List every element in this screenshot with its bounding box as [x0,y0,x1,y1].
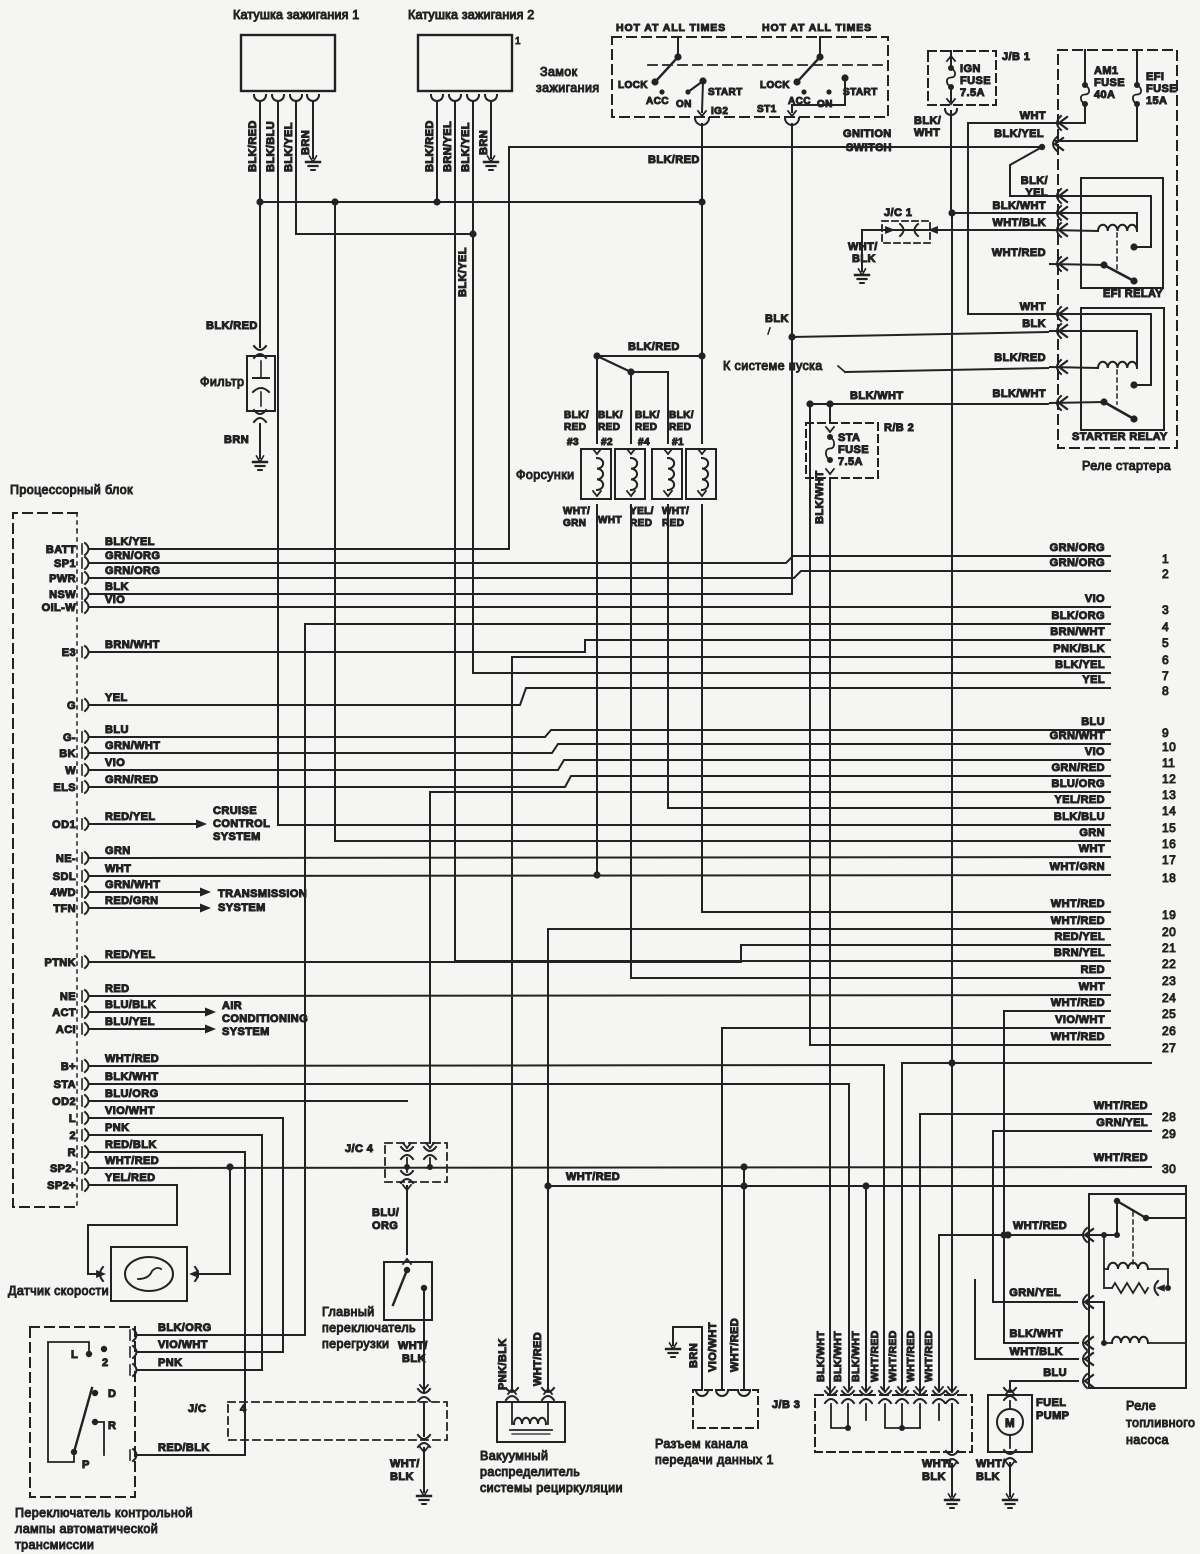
EFI relay coil [1098,225,1137,231]
wire IGN fuse down [951,213,953,1063]
svg-text:VIO/WHT: VIO/WHT [1055,1014,1105,1026]
switch1 LOCK label [618,80,648,91]
svg-text:ELS: ELS [53,782,76,794]
svg-text:WHT: WHT [1020,110,1046,122]
hot at all times label 1 [616,22,726,34]
svg-text:BRN: BRN [688,1343,700,1368]
svg-text:L: L [69,1113,76,1125]
wire row23 RED [631,977,1110,979]
wire ignition to BATT [508,147,510,549]
ground coil1 [306,156,320,170]
svg-text:Катушка зажигания 1: Катушка зажигания 1 [233,8,359,22]
filter connector bottom [254,410,266,422]
fpr pole link [1114,1201,1120,1238]
svg-text:BRN/WHT: BRN/WHT [1050,626,1105,638]
wire inj3 drop [596,356,598,443]
svg-text:21: 21 [1162,941,1176,955]
wire 2 PNK [90,1122,262,1135]
svg-text:W: W [65,765,76,777]
wire NE- GRN row17 [90,845,1110,858]
trans conn PNK [130,1135,262,1376]
connector WHT/BLK efi [992,217,1067,237]
trans switch D [92,1388,117,1400]
svg-text:перегрузки: перегрузки [322,1337,389,1351]
wire jb3 w5 [902,1059,1151,1390]
svg-text:RED: RED [635,422,657,433]
wire BLK/YEL fuse jog [1010,147,1050,196]
svg-text:LOCK: LOCK [760,80,790,91]
svg-text:WHT/BLK: WHT/BLK [992,217,1046,229]
wire BLK starter inner [1050,331,1137,368]
connector WHT starter [1020,301,1067,321]
svg-text:GRN/ORG: GRN/ORG [105,550,160,562]
svg-text:BLK/: BLK/ [1021,175,1048,187]
fuel pump box [988,1395,1032,1452]
svg-text:WHT: WHT [1079,981,1105,993]
vacuum distributor box [497,1402,565,1442]
svg-text:GRN/ORG: GRN/ORG [1050,542,1105,554]
svg-text:BLK/: BLK/ [598,410,623,421]
svg-text:передачи данных 1: передачи данных 1 [655,1453,774,1467]
wire ELS GRN/RED row12 [90,774,1110,787]
svg-text:WHT/RED: WHT/RED [1094,1152,1148,1164]
svg-text:BLK/ORG: BLK/ORG [158,1322,212,1334]
wire NE RED row24 [90,983,1110,996]
svg-text:GRN/RED: GRN/RED [105,774,159,786]
svg-text:SP2-: SP2- [50,1163,76,1175]
J/B 3 internal [831,1404,952,1452]
svg-text:PUMP: PUMP [1036,1410,1069,1422]
hot at all times label 2 [762,22,872,34]
svg-text:BLU/YEL: BLU/YEL [105,1016,155,1028]
svg-text:SYSTEM: SYSTEM [218,902,266,914]
wire BLK/YEL link [296,230,477,297]
svg-text:30: 30 [1162,1162,1176,1176]
wire row14 YEL/RED [668,807,1110,809]
svg-text:Форсунки: Форсунки [516,468,574,482]
svg-text:STARTER RELAY: STARTER RELAY [1072,431,1168,443]
svg-text:BRN: BRN [478,130,490,155]
wire inj4 out [667,505,669,808]
svg-text:7.5A: 7.5A [838,456,863,468]
svg-text:WHT/RED: WHT/RED [869,1330,881,1382]
svg-text:VIO: VIO [1085,746,1105,758]
switch2 LOCK arm [793,57,820,86]
trans switch L [71,1349,92,1361]
wire WHT/RED branch [544,1171,1186,1190]
WHT/BLK label jc1 [848,241,878,265]
AM1 fuse [1081,50,1125,123]
svg-text:M: M [1005,1418,1015,1430]
fuel pump label [1036,1397,1069,1422]
svg-text:GRN: GRN [563,518,586,529]
svg-text:WHT/GRN: WHT/GRN [1050,861,1105,873]
wire IG2 vertical [701,124,703,356]
BLK/WHT label jb1 [914,115,941,139]
svg-text:VIO: VIO [105,594,125,606]
svg-text:PNK: PNK [105,1122,129,1134]
svg-text:VIO/WHT: VIO/WHT [158,1339,208,1351]
svg-text:BLU: BLU [105,724,129,736]
svg-text:VIO: VIO [105,757,125,769]
svg-text:R/B 2: R/B 2 [884,422,914,434]
wire L VIO/WHT [90,1105,283,1118]
svg-text:системы рециркуляции: системы рециркуляции [480,1481,623,1495]
node row30 tap [740,1163,747,1186]
data connector box [693,1390,758,1428]
transmission switch label [15,1506,193,1552]
svg-text:BLK: BLK [390,1471,414,1483]
svg-text:WHT/RED: WHT/RED [1051,898,1105,910]
svg-text:WHT/RED: WHT/RED [992,247,1046,259]
svg-text:3: 3 [1162,603,1169,617]
connector WHT efi-top [1057,116,1067,130]
wire jb3 w8 [951,1063,953,1390]
svg-text:GRN/ORG: GRN/ORG [1050,557,1105,569]
svg-text:PWR: PWR [49,573,76,585]
node ST1-BLK junction [788,333,795,340]
IGN fuse connector [945,109,957,213]
svg-text:ON: ON [676,99,692,110]
R/B 2 box [806,422,914,478]
connector BLU fpr [1010,1367,1093,1388]
J/C 1 connectors [862,224,938,236]
svg-text:WHT/RED: WHT/RED [105,1053,159,1065]
svg-text:BLK: BLK [105,581,129,593]
J/B 3 bottom exit [922,1451,958,1496]
svg-text:YEL/: YEL/ [630,506,654,517]
svg-text:WHT: WHT [914,127,940,139]
vacuum connectors [506,1332,554,1400]
switch1 START label [708,87,743,98]
svg-text:WHT/RED: WHT/RED [1051,997,1105,1009]
wire BLU/ORG down [372,1186,407,1254]
wire inj2 out [630,505,632,978]
fuel pump motor [997,1409,1023,1435]
transmission switch box [30,1327,135,1497]
wire OD1 RED/YEL cruise [90,811,207,829]
wire row29 GRN/YEL [993,1131,1151,1302]
connector BLK/WHT starter [992,388,1067,410]
svg-text:BLK/YEL: BLK/YEL [994,128,1044,140]
ground coil2 [484,156,498,170]
svg-text:WHT/RED: WHT/RED [1051,1031,1105,1043]
wire jb3 w4 B+ [883,1065,885,1390]
svg-text:BK: BK [59,748,76,760]
svg-text:2: 2 [69,1130,76,1142]
wire STA BLK/WHT [90,1071,849,1084]
starter relay box [1081,308,1164,430]
ground overload [417,1490,431,1504]
wire WHT/BLK fpr [974,1280,976,1359]
filter connector top [254,346,266,358]
svg-text:VIO/WHT: VIO/WHT [105,1105,155,1117]
wire BK GRN/WHT row10 [90,740,1110,753]
injector #3 labels [564,410,589,448]
svg-text:11: 11 [1162,756,1175,770]
coil 2 pin arcs [431,95,497,101]
svg-text:RED/YEL: RED/YEL [1055,931,1105,943]
svg-text:WHT/: WHT/ [922,1458,952,1470]
svg-text:WHT/RED: WHT/RED [1013,1220,1067,1232]
wire WHT/BLK out [929,229,1050,231]
wire inj1 drop [701,356,703,443]
fpr coil node left [1103,1235,1105,1288]
svg-text:CRUISE: CRUISE [213,805,257,817]
svg-text:лампы автоматической: лампы автоматической [15,1522,158,1536]
J/B 3 wire labels [815,1330,935,1382]
svg-text:WHT/RED: WHT/RED [532,1332,544,1386]
svg-text:BLK/WHT: BLK/WHT [815,1331,827,1382]
switch1 ACC contact [646,89,669,107]
fuel pump relay label [1126,1399,1195,1447]
svg-text:BLK/RED: BLK/RED [206,320,258,332]
wire SP1 GRN/ORG row1 [90,550,1110,563]
wire jb3 w6 [919,1114,921,1390]
switch1 ON contact [676,89,692,110]
coil1 wire BLK/YEL [283,101,296,234]
svg-text:GNITION: GNITION [843,128,892,140]
svg-text:OD1: OD1 [52,819,76,831]
right row labels and numbers [1050,542,1177,1176]
injectors label [516,468,574,482]
svg-text:WHT/RED: WHT/RED [729,1318,741,1372]
J/B 3 label [772,1399,800,1411]
node sta-27 [806,400,833,407]
cpu block label [10,483,133,497]
wire row22 BRN/YEL [455,960,1110,962]
EFI fuse [1133,50,1177,141]
svg-text:#1: #1 [672,437,684,448]
svg-text:BLK/WHT: BLK/WHT [992,388,1046,400]
injector #2 box [615,449,645,499]
transmission label [218,888,307,914]
svg-text:BLK/WHT: BLK/WHT [992,200,1046,212]
wire BLK/RED ignition feed [509,144,1045,166]
svg-text:2: 2 [1162,567,1169,581]
svg-text:WHT/RED: WHT/RED [105,1155,159,1167]
connector BLK/RED starter [994,352,1067,374]
wire WHT starter inner [1050,314,1151,389]
svg-text:Главный: Главный [322,1305,375,1319]
svg-text:GRN/YEL: GRN/YEL [1096,1117,1148,1129]
trans switch 2 [101,1346,109,1369]
ignition coil 2 box [418,35,521,91]
svg-text:BLK/: BLK/ [564,410,589,421]
EFI relay box [1081,178,1163,288]
svg-text:22: 22 [1162,957,1176,971]
cpu pins [42,543,89,1192]
svg-text:ACC: ACC [646,96,669,107]
svg-text:BLK: BLK [765,313,789,325]
svg-text:OIL-W: OIL-W [42,602,77,614]
svg-text:7: 7 [1162,669,1169,683]
wire SP2- WHT/RED row30 [90,1155,1151,1168]
svg-text:распределитель: распределитель [480,1465,580,1479]
EFI relay switch [1050,261,1138,284]
svg-text:L: L [71,1349,78,1361]
svg-text:STA: STA [54,1079,76,1091]
svg-text:8: 8 [1162,684,1169,698]
svg-text:RED/YEL: RED/YEL [105,949,155,961]
wire R RED/BLK [90,1139,245,1152]
svg-text:Вакуумный: Вакуумный [480,1449,548,1463]
svg-text:AM1: AM1 [1094,65,1118,77]
svg-text:BLK/YEL: BLK/YEL [283,122,295,172]
GNITION SWITCH label [843,128,892,154]
wire WHT/RED to data [729,1186,744,1390]
connector WHT/BLK fpr [975,1346,1093,1366]
filter capacitor box [247,356,275,411]
svg-text:J/C: J/C [188,1403,206,1415]
wire branch into relay [1185,1186,1187,1218]
svg-text:WHT/RED: WHT/RED [566,1171,620,1183]
trans switch arm [74,1388,92,1452]
svg-text:зажигания: зажигания [536,81,600,95]
svg-text:GRN/RED: GRN/RED [1051,762,1105,774]
svg-text:Фильтр: Фильтр [200,375,244,389]
wire row16 GRN [331,198,1110,841]
speed sensor label [8,1284,109,1298]
wire NSW BLK [90,581,792,594]
wire to ground jc1 [861,230,863,271]
svg-text:NE-: NE- [56,853,76,865]
speed sensor arrows [96,1267,199,1281]
svg-text:трансмиссии: трансмиссии [15,1538,94,1552]
svg-text:BLK/WHT: BLK/WHT [832,1331,844,1382]
svg-text:PTNK: PTNK [44,957,76,969]
svg-text:OD2: OD2 [52,1096,76,1108]
wire BLK/WHT efi inner [1050,213,1137,231]
svg-text:CONDITIONING: CONDITIONING [222,1013,308,1025]
svg-text:40A: 40A [1094,89,1115,101]
wire row19 WHT/RED [702,911,1110,913]
svg-text:#4: #4 [638,437,650,448]
J/C 4 upper box [345,1143,447,1182]
svg-text:START: START [708,87,743,98]
svg-text:ACT: ACT [52,1007,76,1019]
svg-text:YEL/RED: YEL/RED [1055,794,1105,806]
svg-text:топливного: топливного [1126,1416,1195,1430]
svg-text:WHT/RED: WHT/RED [887,1330,899,1382]
wire BLK/YEL efi inner [1050,196,1151,251]
EFI relay dashed link [1116,233,1118,270]
svg-text:FUSE: FUSE [960,75,991,87]
cruise control label [213,805,270,843]
svg-text:14: 14 [1162,804,1176,818]
svg-text:RED: RED [598,422,620,433]
IGN fuse [947,51,991,104]
svg-text:ST1: ST1 [757,104,777,115]
wire OIL-W VIO row3 [90,594,1110,607]
svg-text:GRN/WHT: GRN/WHT [105,879,160,891]
svg-text:J/B 3: J/B 3 [772,1399,800,1411]
wire BLK/RED coils bus [256,198,705,205]
starter relay coil [1098,362,1137,368]
svg-text:YEL: YEL [1025,187,1048,199]
svg-text:LOCK: LOCK [618,80,648,91]
injector #1 box [686,449,716,499]
svg-text:К системе пуска: К системе пуска [723,359,823,373]
svg-text:BRN: BRN [224,434,249,446]
wire SP2+ YEL/RED [88,1172,177,1274]
trans switch R [92,1419,117,1432]
wire row13 BLU/ORG [430,792,1110,1143]
svg-text:PNK: PNK [158,1357,182,1369]
svg-text:J/C 4: J/C 4 [345,1143,374,1155]
wire BLU to pump [1009,1381,1011,1390]
svg-text:BLK: BLK [402,1353,426,1365]
svg-text:RED: RED [669,422,691,433]
svg-text:WHT/: WHT/ [563,506,590,517]
svg-text:BLK/YEL: BLK/YEL [460,122,472,172]
svg-text:6: 6 [1162,653,1169,667]
ignition switch label ru [536,65,600,95]
wire WHT am1 [968,110,1085,314]
svg-text:NSW: NSW [49,589,76,601]
svg-text:WHT/: WHT/ [662,506,689,517]
wire BLK/YEL efi fuse [994,128,1137,141]
svg-text:2: 2 [102,1357,109,1369]
ground filter [253,456,267,470]
wire jb3 w3 [862,1182,869,1390]
svg-text:Катушка зажигания 2: Катушка зажигания 2 [408,8,534,22]
svg-text:SYSTEM: SYSTEM [222,1026,270,1038]
svg-text:GRN: GRN [1079,827,1105,839]
svg-text:#2: #2 [601,437,613,448]
ground jc1 [855,269,869,283]
wire inj2 drop [630,372,632,443]
ignition coil 1 box [241,35,335,91]
svg-text:PNK/BLK: PNK/BLK [1053,643,1105,655]
svg-text:27: 27 [1162,1041,1176,1055]
svg-text:BRN: BRN [300,130,312,155]
svg-text:WHT: WHT [1079,843,1105,855]
injector bottom labels [563,506,689,529]
starter relay dashed link [1116,370,1118,404]
relay box dashed [1058,50,1177,448]
svg-text:Процессорный блок: Процессорный блок [10,483,133,497]
svg-text:23: 23 [1162,974,1176,988]
svg-text:YEL: YEL [1082,674,1105,686]
svg-text:12: 12 [1162,772,1176,786]
wire WHT/BLK efi inner [1050,230,1098,231]
switch1 ON-START arm [688,77,707,92]
svg-text:1: 1 [1162,552,1169,566]
svg-text:15: 15 [1162,821,1176,835]
svg-text:BLU: BLU [1081,716,1105,728]
coil1 wire BLK/RED [247,101,260,202]
svg-text:BRN/WHT: BRN/WHT [105,639,160,651]
svg-text:WHT/: WHT/ [976,1458,1006,1470]
starter relay ru label [1082,459,1171,473]
vacuum label [480,1449,623,1495]
svg-text:BRN/YEL: BRN/YEL [1054,947,1105,959]
svg-text:HOT AT ALL TIMES: HOT AT ALL TIMES [762,22,872,34]
svg-text:29: 29 [1162,1127,1176,1141]
svg-text:G-: G- [63,732,76,744]
svg-text:J/C 1: J/C 1 [884,207,912,219]
switch2 stub [816,37,823,61]
svg-text:BLK/RED: BLK/RED [994,352,1046,364]
svg-text:BLK/: BLK/ [669,410,694,421]
svg-text:16: 16 [1162,837,1176,851]
ignition coil 1 label [233,8,359,22]
svg-text:WHT: WHT [1020,301,1046,313]
starter relay label [1072,431,1168,443]
ignition switch dashed box [612,37,888,117]
svg-text:BLK/BLU: BLK/BLU [1054,811,1105,823]
